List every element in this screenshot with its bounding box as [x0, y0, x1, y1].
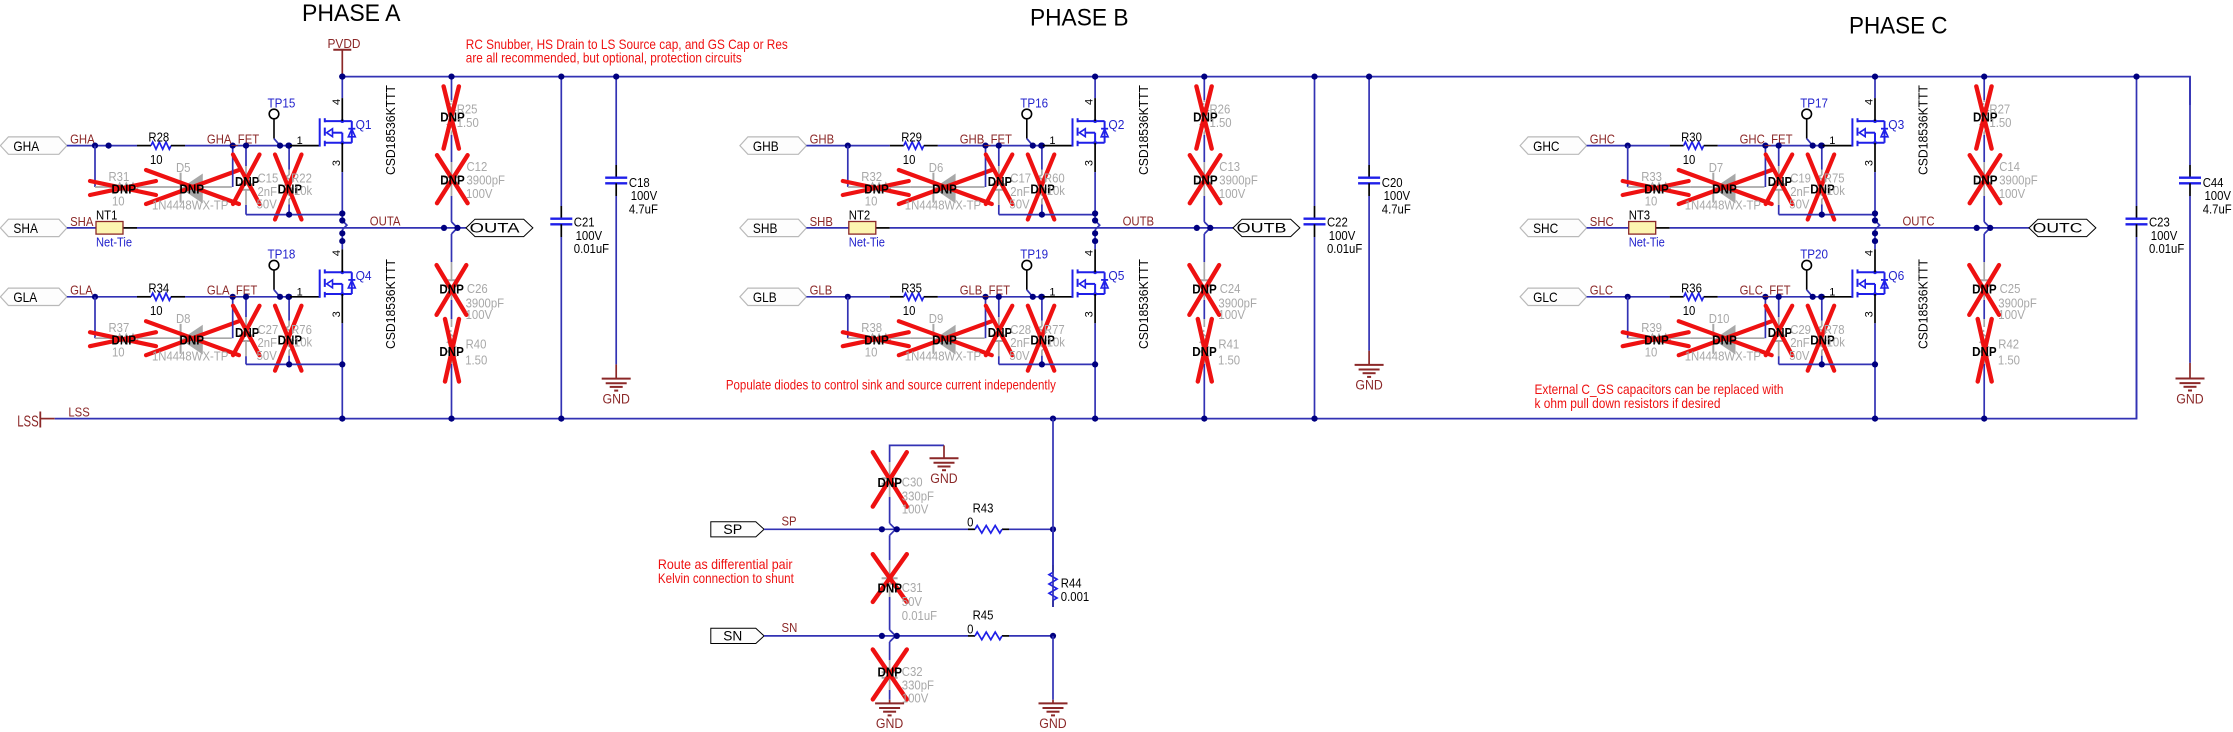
port SHC	[1520, 219, 1587, 236]
svg-text:10: 10	[112, 195, 125, 209]
pin 3 label	[1084, 311, 1096, 317]
net label SHA	[70, 215, 94, 229]
svg-text:3: 3	[1084, 160, 1096, 166]
annotation external CGS note line2	[1535, 395, 1721, 411]
capacitor C25 (DNP)	[1976, 234, 1992, 319]
net label GLC	[1590, 284, 1613, 298]
svg-text:100V: 100V	[902, 692, 929, 706]
junction TP jog	[277, 143, 292, 149]
svg-text:GLC_FET: GLC_FET	[1740, 284, 1791, 298]
svg-text:SN: SN	[723, 629, 742, 644]
ground under R44 column	[1039, 700, 1068, 731]
DNP cross over R32	[843, 181, 909, 195]
DNP cross over R75	[1808, 155, 1835, 220]
junction gate res bottom	[1819, 212, 1825, 218]
svg-text:GLB: GLB	[810, 284, 833, 298]
pin 1 label	[1049, 286, 1055, 298]
title PHASE A	[302, 0, 401, 27]
junction riser top	[1762, 294, 1768, 300]
svg-text:DNP: DNP	[1192, 281, 1217, 296]
resistor R76 (DNP)	[285, 297, 293, 365]
junction bottom wire at FET	[339, 361, 345, 367]
svg-text:10: 10	[150, 153, 163, 167]
svg-text:50V: 50V	[257, 349, 278, 363]
ground under C18	[602, 364, 631, 406]
junction bypass1 rail	[558, 74, 564, 80]
junction TP jog	[1810, 294, 1825, 300]
svg-text:10: 10	[1645, 346, 1658, 360]
wire diode riser	[985, 297, 987, 338]
svg-text:1: 1	[1049, 135, 1055, 147]
svg-text:C19: C19	[1790, 172, 1811, 186]
junction snubber rail	[448, 74, 454, 80]
svg-text:C31: C31	[902, 581, 923, 595]
svg-text:0.01uF: 0.01uF	[574, 242, 610, 256]
junction riser top	[982, 143, 988, 149]
junction gate res top	[1039, 294, 1045, 300]
svg-text:DNP: DNP	[1192, 344, 1217, 359]
DNP cross over R27	[1976, 86, 1991, 148]
svg-text:50V: 50V	[902, 595, 923, 609]
svg-text:100V: 100V	[1998, 308, 2025, 322]
labels R77	[1030, 323, 1065, 350]
svg-text:TP16: TP16	[1020, 96, 1048, 111]
resistor R26 (DNP)	[1201, 77, 1209, 162]
labels R76	[278, 323, 313, 350]
wire source down to LSS	[341, 294, 343, 419]
wire drain up to OUT	[1094, 244, 1096, 272]
wire gate lead	[1823, 145, 1853, 147]
junction TP jog	[1030, 143, 1045, 149]
svg-text:GLB: GLB	[753, 289, 777, 305]
svg-text:100V: 100V	[466, 187, 493, 201]
labels R39	[1641, 321, 1669, 360]
junction GL row	[92, 294, 98, 300]
svg-text:10k: 10k	[1047, 335, 1066, 349]
capacitor C15 (DNP)	[239, 146, 253, 215]
wire SH row	[1587, 227, 2029, 229]
svg-text:GND: GND	[2176, 391, 2204, 406]
junction gate res bottom	[286, 361, 292, 367]
wire gate lead	[290, 296, 320, 298]
svg-text:DNP: DNP	[439, 344, 464, 359]
DNP cross over C19	[1766, 155, 1793, 205]
labels C26	[439, 281, 504, 322]
svg-text:4.7uF: 4.7uF	[1382, 202, 1411, 216]
port GLA	[0, 288, 67, 305]
svg-text:10: 10	[1645, 195, 1658, 209]
net label SN	[782, 621, 798, 635]
junction bypass1 rail	[2133, 74, 2139, 80]
junction gate res bottom	[1039, 212, 1045, 218]
labels R38	[861, 321, 889, 360]
port OUTB	[1233, 219, 1300, 236]
DNP cross over C28	[986, 306, 1013, 356]
DNP cross over R77	[1028, 306, 1055, 371]
net label OUTC	[1903, 215, 1935, 229]
junction snubber LSS	[1981, 416, 1987, 422]
annotation RC snubber note line2	[466, 49, 742, 65]
svg-text:100V: 100V	[1384, 189, 1411, 203]
svg-text:DNP: DNP	[878, 665, 903, 680]
svg-text:R29: R29	[901, 130, 922, 144]
pin 3 label	[1864, 160, 1876, 166]
svg-text:100V: 100V	[466, 308, 493, 322]
svg-text:C13: C13	[1219, 160, 1240, 174]
svg-text:TP20: TP20	[1800, 247, 1828, 262]
wire gate cap bottom	[999, 363, 1095, 365]
svg-text:C18: C18	[629, 176, 650, 190]
labels R42	[1972, 338, 2020, 368]
svg-text:SHC: SHC	[1590, 215, 1614, 229]
labels D9	[905, 312, 981, 364]
svg-text:GND: GND	[1355, 378, 1383, 393]
svg-text:1N4448WX-TP: 1N4448WX-TP	[905, 199, 981, 213]
svg-text:C29: C29	[1790, 323, 1811, 337]
svg-text:DNP: DNP	[1768, 174, 1793, 189]
port GLB	[740, 288, 807, 305]
DNP cross over R33	[1623, 181, 1689, 195]
svg-text:R41: R41	[1218, 338, 1239, 352]
labels R33	[1641, 170, 1669, 209]
wire gate cap bottom	[246, 363, 342, 365]
svg-text:Q3: Q3	[1888, 117, 1904, 132]
capacitor C14 (DNP)	[1976, 162, 1992, 234]
svg-text:C44: C44	[2203, 176, 2224, 190]
DNP cross over D6	[899, 170, 992, 204]
wire drain up to OUT	[1874, 244, 1876, 272]
wire diode riser	[232, 297, 234, 338]
DNP cross over R40	[445, 319, 459, 382]
svg-text:R36: R36	[1681, 282, 1702, 296]
junction snubber LSS	[448, 416, 454, 422]
junction GH row extra	[106, 143, 112, 149]
junction gate cap top	[996, 294, 1002, 300]
net label GLA	[70, 284, 93, 298]
wire source down	[1095, 143, 1100, 244]
DNP cross over R25	[444, 86, 459, 148]
junction gate cap top	[243, 294, 249, 300]
svg-text:1.50: 1.50	[457, 116, 479, 130]
svg-text:C27: C27	[258, 323, 279, 337]
svg-text:C26: C26	[467, 282, 488, 296]
DNP cross over C14	[1970, 155, 2001, 203]
ground under C20	[1355, 351, 1384, 393]
capacitor C30 (DNP)	[882, 462, 898, 535]
svg-text:OUTC: OUTC	[2033, 221, 2083, 236]
capacitor C13 (DNP)	[1196, 162, 1212, 234]
svg-text:CSD18536KTTT: CSD18536KTTT	[1136, 259, 1151, 349]
capacitor C23	[2126, 77, 2185, 419]
wire GH row	[1587, 145, 1823, 147]
junction GL row	[1625, 294, 1631, 300]
junction riser top	[982, 294, 988, 300]
svg-text:DNP: DNP	[180, 333, 205, 348]
junction drain rail	[1872, 74, 1878, 80]
svg-text:1.50: 1.50	[1210, 116, 1232, 130]
svg-text:GLC: GLC	[1533, 289, 1558, 305]
svg-text:DNP: DNP	[440, 172, 465, 187]
wire SH row	[806, 227, 1233, 229]
pin 1 label	[1829, 135, 1835, 147]
svg-text:4: 4	[1084, 250, 1096, 256]
svg-text:1.50: 1.50	[465, 353, 487, 367]
svg-text:10k: 10k	[1827, 335, 1846, 349]
labels R26	[1193, 103, 1232, 131]
junction source node stack	[1872, 210, 1878, 244]
wire source down to LSS	[1094, 294, 1096, 419]
part number CSD18536KTTT Q1	[383, 85, 398, 175]
test point TP20	[1800, 247, 1828, 297]
labels C24	[1192, 281, 1257, 322]
svg-text:10k: 10k	[294, 335, 313, 349]
svg-text:100V: 100V	[576, 229, 603, 243]
svg-text:Net-Tie: Net-Tie	[96, 235, 132, 250]
svg-text:50V: 50V	[1009, 349, 1030, 363]
junction gate res top	[1039, 143, 1045, 149]
svg-text:4: 4	[1084, 99, 1096, 105]
svg-text:R27: R27	[1989, 103, 2010, 117]
junction bypass1 LSS	[558, 416, 564, 422]
wire down to DNP resistor	[847, 297, 849, 338]
resistor R60 (DNP)	[1038, 146, 1046, 215]
svg-text:0.01uF: 0.01uF	[2149, 242, 2185, 256]
svg-text:0.01uF: 0.01uF	[902, 609, 938, 623]
svg-text:NT3: NT3	[1629, 208, 1650, 222]
junction riser top	[230, 294, 236, 300]
DNP cross over R60	[1028, 155, 1055, 220]
svg-text:CSD18536KTTT: CSD18536KTTT	[383, 85, 398, 175]
svg-text:1: 1	[1829, 286, 1835, 298]
svg-text:10k: 10k	[1047, 184, 1066, 198]
svg-text:DNP: DNP	[235, 325, 260, 340]
svg-text:R34: R34	[148, 282, 169, 296]
wire drain to rail	[1094, 77, 1096, 122]
labels R37	[109, 321, 137, 360]
svg-text:D8: D8	[176, 312, 191, 326]
junction drain rail	[1092, 74, 1098, 80]
wire source down	[342, 143, 347, 244]
svg-text:Q6: Q6	[1888, 268, 1904, 283]
diode D10 (DNP)	[1691, 324, 1765, 354]
svg-text:50V: 50V	[1009, 198, 1030, 212]
labels C27	[235, 323, 278, 363]
DNP cross over D8	[146, 321, 239, 355]
labels C25	[1972, 281, 2037, 322]
junction bottom wire at FET	[1092, 361, 1098, 367]
svg-text:1N4448WX-TP: 1N4448WX-TP	[1685, 350, 1761, 364]
junction drain rail	[339, 74, 345, 80]
svg-text:R40: R40	[466, 338, 487, 352]
junction SN row	[879, 633, 900, 639]
DNP cross over C15	[233, 155, 260, 205]
wire gate lead	[290, 145, 320, 147]
resistor R34	[137, 282, 185, 319]
svg-text:C20: C20	[1382, 176, 1403, 190]
wire drain up to OUT	[341, 244, 343, 272]
labels R31	[109, 170, 137, 209]
junction gate cap top	[996, 143, 1002, 149]
svg-text:DNP: DNP	[1193, 172, 1218, 187]
test point TP19	[1020, 247, 1048, 297]
junction R45 right	[1050, 633, 1056, 639]
title PHASE B	[1030, 5, 1129, 32]
svg-text:CSD18536KTTT: CSD18536KTTT	[383, 259, 398, 349]
junction gate cap top	[243, 143, 249, 149]
svg-text:C32: C32	[902, 665, 923, 679]
resistor R43	[967, 502, 1002, 533]
junction gate res bottom	[1039, 361, 1045, 367]
wire down to DNP resistor	[94, 297, 96, 338]
svg-text:R42: R42	[1998, 338, 2019, 352]
svg-text:TP19: TP19	[1020, 247, 1048, 262]
labels C14	[1973, 160, 2038, 201]
DNP cross over C24	[1189, 265, 1219, 315]
wire down to DNP resistor	[847, 146, 849, 187]
svg-text:10: 10	[112, 346, 125, 360]
svg-text:GLA: GLA	[13, 289, 37, 305]
resistor R40 (DNP)	[448, 319, 456, 419]
svg-text:0: 0	[967, 622, 973, 636]
svg-text:GLA_FET: GLA_FET	[207, 284, 258, 298]
ground near C30	[930, 445, 959, 486]
svg-text:GND: GND	[1039, 716, 1067, 731]
part number CSD18536KTTT Q5	[1136, 259, 1151, 349]
svg-text:50V: 50V	[257, 198, 278, 212]
resistor R27 (DNP)	[1980, 77, 1988, 162]
resistor R42 (DNP)	[1980, 319, 1988, 419]
svg-text:CSD18536KTTT: CSD18536KTTT	[1916, 259, 1931, 349]
junction riser top	[230, 143, 236, 149]
svg-text:1: 1	[297, 286, 303, 298]
capacitor C20	[1358, 77, 1411, 351]
junction GH row	[92, 143, 98, 149]
svg-text:4: 4	[1864, 99, 1876, 105]
net label GLA_FET	[207, 284, 258, 298]
svg-text:GHA_FET: GHA_FET	[207, 133, 260, 147]
wire SH row	[67, 227, 466, 229]
svg-text:NT2: NT2	[849, 208, 870, 222]
svg-text:GHA: GHA	[70, 133, 95, 147]
junction gate cap top	[1776, 294, 1782, 300]
junction bypass1 LSS	[1311, 416, 1317, 422]
svg-text:DNP: DNP	[235, 174, 260, 189]
resistor R78 (DNP)	[1818, 297, 1826, 365]
svg-text:PHASE C: PHASE C	[1849, 13, 1948, 40]
net label GLB	[810, 284, 833, 298]
junction source node stack	[339, 210, 345, 244]
svg-text:DNP: DNP	[1712, 181, 1737, 196]
wire GH row	[806, 145, 1042, 147]
net label OUTB	[1123, 215, 1155, 229]
svg-text:OUTB: OUTB	[1123, 215, 1155, 229]
wire GL row	[67, 296, 290, 298]
DNP cross over D9	[899, 321, 992, 355]
svg-text:1.50: 1.50	[1989, 116, 2011, 130]
DNP cross over C30	[873, 452, 907, 506]
svg-text:SP: SP	[782, 515, 797, 529]
svg-text:3: 3	[331, 160, 343, 166]
svg-text:C23: C23	[2149, 216, 2170, 230]
svg-text:SHA: SHA	[70, 215, 94, 229]
wire down to DNP resistor	[1627, 297, 1629, 338]
port OUTC	[2029, 219, 2096, 236]
part number CSD18536KTTT Q3	[1916, 85, 1931, 175]
svg-text:C22: C22	[1327, 216, 1348, 230]
svg-text:330pF: 330pF	[902, 679, 934, 693]
labels R32	[861, 170, 889, 209]
DNP cross over R38	[843, 332, 909, 346]
pin 4 label	[331, 250, 343, 256]
part number CSD18536KTTT Q2	[1136, 85, 1151, 175]
svg-text:GHB_FET: GHB_FET	[960, 133, 1013, 147]
resistor R77 (DNP)	[1038, 297, 1046, 365]
svg-text:D6: D6	[929, 161, 944, 175]
junction source LSS	[339, 416, 345, 422]
svg-text:GLA: GLA	[70, 284, 93, 298]
port GHA	[0, 137, 67, 154]
junction snubber OUT row	[1194, 225, 1214, 231]
svg-text:10: 10	[903, 153, 916, 167]
pin 3 label	[331, 160, 343, 166]
capacitor C44	[2179, 77, 2232, 363]
wire down to DNP resistor	[94, 146, 96, 187]
svg-text:C21: C21	[574, 216, 595, 230]
capacitor C22	[1304, 77, 1363, 419]
svg-text:GHB: GHB	[753, 138, 779, 154]
DNP cross over R26	[1196, 86, 1211, 148]
svg-text:10: 10	[865, 195, 878, 209]
labels C31	[878, 581, 938, 624]
junction GH row	[845, 143, 851, 149]
junction snubber OUT row	[1974, 225, 1994, 231]
svg-text:SHC: SHC	[1533, 220, 1558, 236]
svg-text:DNP: DNP	[1712, 333, 1737, 348]
svg-text:DNP: DNP	[878, 475, 903, 490]
junction R43 right	[1050, 526, 1056, 532]
net label GHB_FET	[960, 133, 1013, 147]
capacitor C12 (DNP)	[444, 162, 460, 234]
resistor R33 (DNP)	[1628, 183, 1691, 190]
DNP cross over R42	[1978, 319, 1992, 382]
svg-text:10: 10	[150, 304, 163, 318]
transistor Q1	[320, 117, 372, 147]
port GLC	[1520, 288, 1587, 305]
svg-text:k ohm pull down resistors if d: k ohm pull down resistors if desired	[1535, 395, 1721, 411]
transistor Q6	[1852, 268, 1904, 298]
svg-text:SHB: SHB	[810, 215, 833, 229]
part number CSD18536KTTT Q6	[1916, 259, 1931, 349]
power symbol PVDD	[328, 37, 361, 77]
junction gate res top	[286, 294, 292, 300]
svg-text:OUTA: OUTA	[370, 215, 401, 229]
capacitor C24 (DNP)	[1196, 234, 1212, 319]
net label SP	[782, 515, 797, 529]
capacitor C29 (DNP)	[1772, 297, 1786, 365]
labels D6	[905, 161, 981, 213]
net label OUTA	[370, 215, 401, 229]
resistor R35	[890, 282, 938, 319]
labels R41	[1192, 338, 1240, 368]
svg-text:10k: 10k	[294, 184, 313, 198]
labels R25	[440, 103, 479, 131]
svg-text:TP18: TP18	[268, 247, 296, 262]
svg-text:OUTB: OUTB	[1237, 221, 1287, 236]
net tie NT2	[849, 208, 885, 249]
svg-text:SP: SP	[723, 522, 742, 537]
wire gate lead	[1823, 296, 1853, 298]
DNP cross over C31	[873, 554, 907, 602]
